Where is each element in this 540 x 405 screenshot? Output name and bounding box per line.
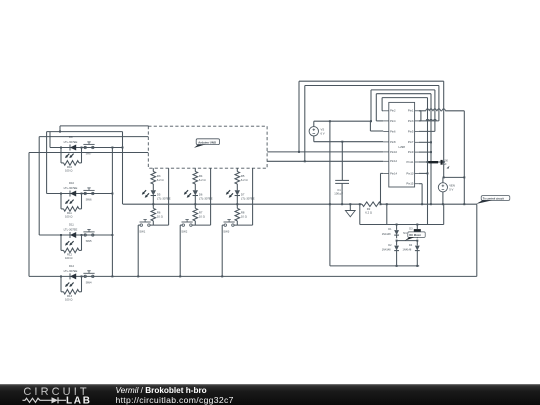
label 6.2 ohm (R2): [365, 211, 372, 215]
svg-text:SW6: SW6: [86, 197, 92, 201]
label VEN: [449, 183, 455, 187]
wire VS+ to bridge bottom: [329, 120, 331, 266]
label 100 &#937; (R11): [65, 215, 72, 219]
wire Pin14 down to mid bus: [381, 173, 384, 204]
label D6: [199, 192, 203, 196]
label 100 uF: [334, 192, 343, 196]
svg-text:SW1: SW1: [139, 230, 145, 234]
label 6.2 &#937; (R4): [199, 178, 206, 182]
svg-text:R10: R10: [67, 165, 73, 169]
wire Pin13 row: [419, 172, 428, 174]
resistor R6: [151, 204, 156, 225]
svg-text:Arduino UNO: Arduino UNO: [198, 141, 217, 145]
svg-text:10 Ω: 10 Ω: [157, 214, 163, 218]
label R8: [241, 210, 245, 214]
svg-text:6.2 Ω: 6.2 Ω: [157, 178, 164, 182]
svg-text:SW7: SW7: [86, 151, 92, 155]
wire Arduino pin vertical (col SW1): [168, 168, 170, 225]
wire Arduino to Pin12: [267, 160, 383, 162]
wire row 1 (D9 branch): [50, 147, 123, 149]
wire C1 top lead: [341, 141, 343, 181]
label LTL-307EE (D9): [64, 140, 78, 144]
pushbutton switch SW2: [182, 220, 193, 227]
label D11: [69, 222, 74, 226]
svg-text:VS: VS: [321, 127, 325, 131]
label D10: [69, 181, 75, 185]
svg-text:D6: D6: [199, 192, 203, 196]
svg-text:1N4148: 1N4148: [403, 249, 412, 252]
Arduino UNO module (dashed boundary): [148, 126, 267, 168]
svg-text:LAB: LAB: [66, 395, 92, 405]
svg-text:To control circuit: To control circuit: [483, 197, 504, 201]
wire row1 feed vertical: [49, 132, 51, 148]
LED D11 LTL-307EE with parallel resistor R12: [60, 232, 83, 253]
svg-text:R8: R8: [241, 210, 245, 214]
label C1: [337, 188, 341, 192]
CircuitLab logo text CIRCUIT: [23, 386, 89, 398]
wire bottom bus / row 4 (D12 branch): [29, 275, 477, 277]
label 1N4148 (D4): [403, 249, 412, 252]
footer url: [116, 395, 234, 405]
label 100 &#937; (R10): [65, 169, 72, 173]
label LTL-307EE (D5): [157, 196, 171, 200]
svg-text:R6: R6: [157, 210, 161, 214]
wire Arduino pin down to resistor R3: [152, 168, 154, 171]
svg-text:D12: D12: [69, 264, 75, 268]
wire Arduino pin down to resistor R5: [236, 168, 238, 171]
wire VS+ to Pin6: [370, 121, 383, 131]
label 100 &#937; (R12): [65, 256, 72, 260]
motor M1 flag DC Motor: [405, 232, 425, 241]
svg-text:R3: R3: [157, 174, 161, 178]
label D7: [241, 192, 245, 196]
LED D10 LTL-307EE with parallel resistor R11: [60, 191, 83, 212]
wire row2 feed vertical: [46, 132, 48, 194]
wire SW2 drop to bottom bus: [179, 225, 181, 277]
svg-text:Pin11: Pin11: [407, 160, 414, 164]
svg-text:R5: R5: [241, 174, 245, 178]
resistor R8: [235, 204, 240, 225]
wire switch row SW2: [180, 224, 210, 226]
wire bus to bridge (left): [359, 203, 361, 224]
wire VEN top to control node: [443, 176, 465, 178]
svg-text:http://circuitlab.com/cgg32c7: http://circuitlab.com/cgg32c7: [116, 395, 234, 405]
resistor R5: [235, 172, 240, 185]
svg-text:Pin7: Pin7: [408, 140, 414, 144]
svg-text:R2: R2: [367, 207, 371, 211]
footer bar: [0, 384, 540, 405]
svg-text:SW5: SW5: [86, 239, 92, 243]
wire VS+ top (left): [60, 125, 149, 127]
diode D2 1N4148: [394, 241, 399, 266]
wire bridge top row: [360, 224, 444, 226]
svg-text:R13: R13: [67, 294, 73, 298]
svg-text:DC Motor: DC Motor: [409, 233, 421, 237]
label SW1: [139, 230, 145, 234]
svg-text:Pin4: Pin4: [390, 119, 396, 123]
LED D6 LTL-307EE: [184, 190, 198, 198]
wire Arduino pin vertical (col SW3): [252, 168, 254, 225]
wire SW1 drop to bottom bus: [137, 225, 139, 277]
pushbutton switch SW4: [83, 271, 94, 278]
wire VS+ corner drop: [59, 126, 61, 133]
svg-text:Pin12: Pin12: [390, 159, 397, 163]
wire switch row SW1: [138, 224, 168, 226]
svg-text:Pin9: Pin9: [408, 150, 414, 154]
svg-text:R12: R12: [67, 253, 73, 257]
wire row 2 (D10 branch): [47, 193, 113, 195]
label 100 uF (C2): [444, 160, 450, 169]
label 6.2 &#937; (R3): [157, 178, 164, 182]
label R7: [199, 210, 203, 214]
svg-text:Vermil / Brokoblet h-bro: Vermil / Brokoblet h-bro: [116, 386, 207, 395]
label 1N4148 (D2): [382, 249, 391, 252]
svg-text:VEN: VEN: [449, 183, 455, 187]
svg-text:100 Ω: 100 Ω: [65, 298, 72, 302]
svg-text:1N4148: 1N4148: [382, 233, 391, 236]
svg-text:Pin6: Pin6: [390, 129, 396, 133]
label 100 &#937; (R13): [65, 298, 72, 302]
label R3: [157, 174, 161, 178]
svg-text:Pin1: Pin1: [408, 109, 414, 113]
svg-text:100 Ω: 100 Ω: [65, 169, 72, 173]
wire Pin1-Pin3 link: [419, 111, 421, 121]
wire Pin9 row extension: [419, 151, 431, 153]
svg-text:5 V: 5 V: [449, 187, 453, 191]
Arduino UNO label flag: [194, 139, 220, 148]
svg-text:Pin2: Pin2: [390, 109, 396, 113]
svg-text:LTL-307EE: LTL-307EE: [64, 186, 78, 190]
label R11: [67, 211, 72, 215]
svg-text:10 Ω: 10 Ω: [199, 214, 205, 218]
CircuitLab logo diode: [43, 397, 66, 403]
pushbutton switch SW3: [224, 220, 235, 227]
label D1: [388, 228, 392, 231]
wire R3 to D5: [152, 184, 154, 190]
svg-text:100 µF: 100 µF: [334, 192, 343, 196]
wire common vertical to rows 2-4 switches: [111, 147, 113, 278]
wire Arduino pin vertical (col SW2): [210, 168, 212, 225]
label LTL-307EE (D6): [199, 196, 213, 200]
wire SW7 vertical to mid bus: [122, 132, 124, 205]
label D2: [388, 244, 392, 247]
wire bus to bridge (right): [386, 204, 388, 224]
wire R4 to D6: [194, 184, 196, 190]
wire loop Pin11: [382, 98, 428, 225]
svg-text:LTL-307EE: LTL-307EE: [64, 140, 78, 144]
label 5 V: [449, 187, 453, 191]
LED D5 LTL-307EE: [142, 190, 156, 198]
wire stub to Arduino pin (row 3): [39, 136, 148, 138]
LED D12 LTL-307EE with parallel resistor R13: [60, 273, 83, 294]
label SW6: [86, 197, 92, 201]
wire VS- to Pin8: [314, 141, 383, 143]
wire D5 to mid bus: [152, 196, 154, 206]
label 6.2 &#937; (R5): [241, 178, 248, 182]
svg-text:C1: C1: [337, 188, 341, 192]
svg-text:Pin10: Pin10: [390, 150, 397, 154]
wire SW3 drop to bottom bus: [221, 225, 223, 277]
label 10 &#937; (R6): [157, 214, 163, 218]
label R13: [67, 294, 73, 298]
label SW2: [181, 230, 187, 234]
label R5: [241, 174, 245, 178]
pushbutton switch SW7: [83, 142, 94, 149]
svg-text:6.2 Ω: 6.2 Ω: [241, 178, 248, 182]
svg-text:L298: L298: [398, 145, 405, 149]
label D4: [409, 244, 413, 247]
wire loop right vertical (VEN feed): [443, 111, 445, 179]
motor row wire: [396, 240, 419, 242]
label M1: [403, 232, 407, 235]
wire Pin1 row to control node: [463, 111, 465, 204]
svg-text:LTL-307EE: LTL-307EE: [64, 269, 78, 273]
LED D9 LTL-307EE with parallel resistor R10: [60, 145, 83, 166]
label SW5: [86, 239, 92, 243]
wire R5 to D7: [236, 184, 238, 190]
wire loop Pin5: [370, 90, 435, 131]
label 10 &#937; (R7): [199, 214, 205, 218]
svg-text:D7: D7: [241, 192, 245, 196]
pushbutton switch SW1: [140, 220, 151, 227]
svg-text:Pin15: Pin15: [406, 182, 414, 186]
capacitor C2 100uF (bold): [428, 160, 441, 165]
diode D3 1N4148 (bold): [414, 225, 421, 239]
svg-text:6.2 Ω: 6.2 Ω: [199, 178, 206, 182]
wire vertical bus (row 4): [28, 153, 30, 277]
svg-text:SW2: SW2: [181, 230, 187, 234]
resistor R7: [193, 204, 198, 225]
op-amp U1 IC L298 motor driver: [383, 102, 419, 187]
wire loop Pin7 to Pin4: [376, 94, 383, 121]
label LTL-307EE (D7): [241, 196, 255, 200]
wire Pin15 to mid bus: [419, 184, 422, 205]
label D9: [69, 135, 73, 139]
label 10 &#937; (R8): [241, 214, 247, 218]
label LTL-307EE (D12): [64, 269, 78, 273]
junction dots on mid bus: [329, 203, 465, 205]
label LTL-307EE (D10): [64, 186, 78, 190]
wire row 3 (D11 branch): [39, 234, 112, 236]
svg-text:M1: M1: [403, 232, 407, 235]
wire VS+ top (right): [314, 120, 371, 122]
svg-text:1N4148: 1N4148: [382, 249, 391, 252]
svg-text:100 Ω: 100 Ω: [65, 256, 72, 260]
wire mid bus (ground net): [123, 203, 477, 205]
svg-text:R4: R4: [199, 174, 203, 178]
label SW7: [86, 151, 92, 155]
svg-text:R7: R7: [199, 210, 203, 214]
label R10: [67, 165, 73, 169]
wire loop Pin7: [376, 94, 432, 205]
capacitor C1 100uF: [335, 180, 349, 204]
node flag To control circuit: [476, 196, 510, 204]
wire Pin11 row to C2: [419, 161, 444, 163]
pushbutton switch SW5: [83, 229, 94, 236]
svg-text:D5: D5: [157, 192, 161, 196]
voltage source VEN 5V: [438, 177, 447, 204]
svg-text:SW3: SW3: [223, 230, 229, 234]
label R6: [157, 210, 161, 214]
wire loop Pin3: [305, 86, 439, 162]
svg-text:SW4: SW4: [86, 280, 92, 284]
wire VEN drop to bridge: [443, 204, 445, 224]
svg-text:6.2 Ω: 6.2 Ω: [365, 211, 372, 215]
label 1N4148 (D1): [382, 233, 391, 236]
LED D7 LTL-307EE: [226, 190, 240, 198]
pushbutton switch SW6: [83, 188, 94, 195]
svg-text:D11: D11: [69, 222, 74, 226]
svg-text:Pin3: Pin3: [408, 119, 414, 123]
wire stub to Arduino pin (row 4): [29, 152, 148, 154]
CircuitLab logo resistor: [23, 398, 44, 402]
svg-text:100 Ω: 100 Ω: [65, 215, 72, 219]
svg-text:Pin5: Pin5: [408, 129, 414, 133]
svg-text:LTL-307EE: LTL-307EE: [64, 228, 78, 232]
svg-text:Pin13: Pin13: [406, 171, 414, 175]
label D3: [409, 227, 413, 230]
wire bridge bottom row: [330, 265, 419, 267]
diode D4 1N4148: [415, 241, 420, 266]
wire Arduino to Pin10: [267, 151, 383, 153]
wire loop Pin1: [299, 81, 464, 152]
label R2: [367, 207, 371, 211]
label 6 V: [321, 131, 325, 135]
wire D6 to mid bus: [194, 196, 196, 206]
resistor R3: [151, 172, 156, 185]
svg-text:Pin14: Pin14: [390, 171, 397, 175]
resistor R2: [362, 202, 381, 207]
label LTL-307EE (D11): [64, 228, 78, 232]
wire vertical bus (row 3): [38, 137, 40, 235]
wire bottom bus riser: [476, 204, 478, 276]
wire switch row SW3: [222, 224, 252, 226]
label SW4: [86, 280, 92, 284]
svg-text:R11: R11: [67, 211, 72, 215]
label R4: [199, 174, 203, 178]
wire Arduino pin down to resistor R4: [194, 168, 196, 171]
wire D7 to mid bus: [236, 196, 238, 206]
label VS: [321, 127, 325, 131]
ground: [345, 204, 355, 217]
resistor R4: [193, 172, 198, 185]
footer credit line: [116, 386, 207, 395]
label SW3: [223, 230, 229, 234]
svg-text:Pin8: Pin8: [390, 140, 396, 144]
CircuitLab logo text LAB: [66, 395, 92, 405]
label R12: [67, 253, 73, 257]
svg-text:10 Ω: 10 Ω: [241, 214, 247, 218]
wire switch common: [47, 131, 123, 133]
diode D1 1N4148: [394, 225, 399, 239]
label D12: [69, 264, 75, 268]
svg-text:D9: D9: [69, 135, 73, 139]
svg-text:6 V: 6 V: [321, 131, 325, 135]
svg-text:D10: D10: [69, 181, 75, 185]
voltage source VS 6V: [309, 121, 318, 142]
label D5: [157, 192, 161, 196]
